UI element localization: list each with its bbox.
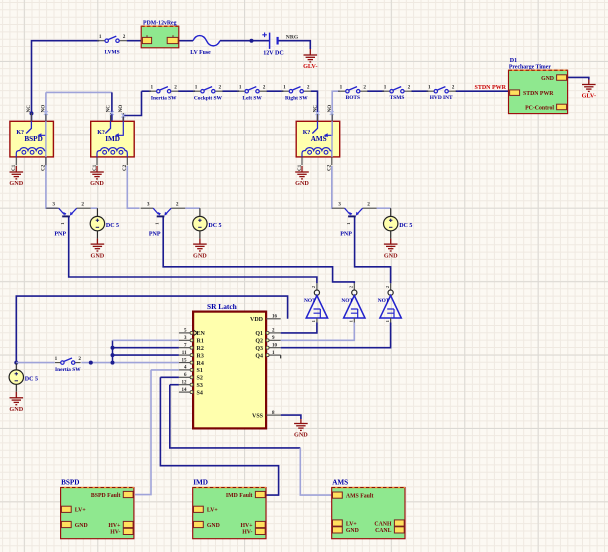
svg-text:GND: GND	[541, 76, 554, 82]
wire	[280, 355, 282, 358]
svg-text:GLV-: GLV-	[582, 93, 596, 100]
svg-text:K?: K?	[16, 130, 24, 136]
wire	[69, 216, 317, 283]
svg-text:12: 12	[182, 381, 188, 386]
wire	[355, 255, 391, 283]
switch HVD INT	[426, 84, 456, 101]
wire	[91, 207, 98, 209]
svg-text:2: 2	[349, 286, 354, 288]
switch Inertia SW	[55, 356, 82, 373]
not-gate U? NOT	[304, 283, 328, 322]
wire	[456, 90, 509, 92]
svg-text:LV+: LV+	[346, 521, 357, 527]
not-gate U? NOT	[341, 283, 365, 322]
no-erc marker	[316, 111, 320, 115]
wire	[46, 91, 112, 93]
svg-text:GND: GND	[75, 523, 88, 529]
source DC 5	[90, 216, 119, 230]
wire	[96, 208, 98, 216]
svg-text:Q3: Q3	[255, 346, 263, 352]
wire	[16, 362, 55, 364]
svg-text:IMD: IMD	[105, 135, 120, 143]
wire	[113, 354, 179, 356]
svg-text:IMD: IMD	[193, 479, 208, 487]
svg-text:LV+: LV+	[75, 508, 86, 514]
svg-text:2: 2	[219, 84, 222, 90]
no-erc marker	[44, 111, 48, 115]
svg-text:GND: GND	[9, 406, 23, 413]
wire	[46, 92, 58, 208]
switch TSMS	[382, 84, 412, 101]
wire	[330, 166, 333, 208]
ground GLV-	[304, 49, 318, 62]
svg-text:LVMS: LVMS	[105, 50, 120, 56]
svg-text:GND: GND	[295, 180, 309, 187]
fuse LV Fuse	[193, 36, 220, 46]
svg-text:1: 1	[349, 320, 354, 322]
svg-text:2: 2	[78, 356, 81, 362]
svg-text:C2: C2	[328, 164, 333, 171]
transistor Q? PNP	[332, 202, 377, 238]
junction	[250, 39, 254, 43]
svg-text:S1: S1	[197, 368, 203, 374]
svg-text:S4: S4	[197, 390, 203, 396]
ground GND	[91, 239, 105, 251]
wire	[142, 90, 151, 92]
wire	[281, 415, 301, 419]
svg-text:GND: GND	[207, 523, 220, 529]
svg-text:1: 1	[385, 320, 390, 322]
svg-text:1: 1	[311, 320, 316, 322]
svg-text:LV+: LV+	[207, 508, 218, 514]
no-erc marker	[121, 114, 125, 118]
wire	[170, 384, 179, 386]
svg-text:1: 1	[239, 84, 242, 90]
svg-text:R3: R3	[197, 353, 204, 359]
svg-text:C1: C1	[93, 164, 98, 171]
svg-text:DC 5: DC 5	[399, 223, 412, 229]
wire	[354, 216, 356, 255]
svg-text:1: 1	[346, 222, 351, 224]
svg-text:2: 2	[311, 286, 316, 288]
svg-text:Inertia SW: Inertia SW	[151, 96, 177, 102]
svg-text:2: 2	[81, 202, 84, 208]
svg-text:NO: NO	[119, 105, 124, 113]
svg-text:BSPD: BSPD	[61, 479, 79, 487]
svg-text:SR Latch: SR Latch	[207, 302, 237, 311]
no-erc marker	[110, 111, 114, 115]
wire	[96, 165, 98, 168]
wire	[127, 40, 142, 42]
transistor Q? PNP	[141, 202, 186, 238]
svg-text:GND: GND	[91, 252, 105, 259]
ground GND	[90, 166, 104, 179]
wire	[185, 207, 200, 209]
svg-text:AMS Fault: AMS Fault	[346, 493, 374, 499]
svg-text:12V DC: 12V DC	[263, 51, 283, 57]
wire	[300, 448, 331, 495]
svg-text:DC 5: DC 5	[106, 223, 119, 229]
wire	[160, 376, 179, 378]
svg-text:GLV-: GLV-	[303, 63, 317, 70]
wire	[331, 166, 333, 208]
wire	[81, 362, 112, 364]
wire	[127, 166, 139, 208]
switch LVMS	[97, 34, 127, 56]
wire	[15, 384, 17, 392]
wire	[163, 216, 354, 283]
wire	[281, 323, 317, 333]
wire	[278, 41, 311, 49]
svg-text:1: 1	[384, 84, 387, 90]
svg-text:HV-: HV-	[242, 530, 252, 536]
wire	[15, 165, 17, 168]
svg-text:3: 3	[338, 202, 341, 208]
svg-text:2: 2	[363, 84, 366, 90]
svg-text:2: 2	[263, 84, 266, 90]
svg-text:DC 5: DC 5	[208, 223, 221, 229]
wire	[267, 90, 284, 92]
wire	[281, 323, 355, 341]
svg-text:HV-: HV-	[110, 530, 120, 536]
wire	[112, 340, 114, 362]
junction	[14, 361, 18, 365]
svg-text:GND: GND	[384, 252, 398, 259]
svg-text:BOTS: BOTS	[346, 95, 360, 101]
svg-text:2: 2	[408, 84, 411, 90]
ground GND	[10, 392, 24, 405]
svg-text:S2: S2	[197, 376, 203, 382]
wire	[16, 296, 287, 363]
svg-text:HV+: HV+	[108, 523, 120, 529]
module BSPD	[61, 479, 134, 539]
timer D1 Precharge Timer	[509, 58, 568, 114]
wire	[311, 91, 318, 121]
svg-text:STDN PWR: STDN PWR	[523, 91, 554, 97]
junction	[111, 353, 115, 357]
svg-text:NOT: NOT	[304, 298, 316, 304]
svg-text:1: 1	[283, 84, 286, 90]
svg-text:STDN PWR: STDN PWR	[475, 85, 507, 91]
svg-text:CANH: CANH	[374, 521, 392, 527]
source DC 5	[9, 370, 38, 384]
svg-text:2: 2	[123, 34, 126, 40]
wire	[331, 121, 333, 157]
ground GND	[10, 166, 24, 179]
svg-text:PNP: PNP	[54, 232, 66, 238]
svg-text:Q1: Q1	[255, 331, 263, 337]
svg-text:PNP: PNP	[340, 232, 352, 238]
svg-text:IMD Fault: IMD Fault	[226, 493, 253, 499]
wire	[411, 90, 428, 92]
ground GND	[294, 419, 308, 430]
switch Left SW	[237, 84, 267, 101]
wire	[113, 362, 179, 364]
ground GLV-	[582, 80, 596, 92]
switch Cockpit SW	[193, 84, 223, 101]
svg-text:NRG: NRG	[286, 35, 299, 41]
svg-text:2: 2	[307, 84, 310, 90]
svg-text:R1: R1	[197, 339, 204, 345]
wire	[113, 339, 179, 341]
junction	[111, 361, 115, 365]
svg-text:1: 1	[340, 84, 343, 90]
transistor Q? PNP	[46, 202, 90, 238]
wire	[220, 40, 269, 42]
wire	[367, 90, 384, 92]
svg-text:EN: EN	[197, 331, 206, 337]
svg-text:BSPD Fault: BSPD Fault	[91, 493, 121, 499]
wire	[160, 377, 278, 495]
wire	[113, 347, 179, 349]
svg-text:C1: C1	[12, 164, 17, 171]
svg-text:10: 10	[272, 344, 278, 349]
svg-text:Q4: Q4	[255, 353, 263, 359]
wire	[568, 77, 589, 79]
wire	[151, 369, 179, 371]
switch Inertia SW	[149, 84, 179, 101]
svg-text:NC: NC	[27, 105, 32, 113]
svg-text:HVD INT: HVD INT	[430, 95, 453, 101]
svg-text:GND: GND	[346, 528, 359, 534]
wire	[15, 363, 17, 370]
svg-text:Q2: Q2	[255, 339, 263, 345]
svg-text:AMS: AMS	[332, 479, 348, 487]
svg-text:2: 2	[174, 84, 177, 90]
wire	[170, 385, 300, 448]
svg-text:Cockpit SW: Cockpit SW	[194, 96, 223, 102]
svg-text:GND: GND	[294, 432, 308, 439]
svg-text:1: 1	[99, 34, 102, 40]
svg-text:HV+: HV+	[241, 523, 253, 529]
svg-text:1: 1	[195, 84, 198, 90]
wire	[123, 91, 141, 121]
wire	[199, 231, 201, 239]
relay K? AMS	[296, 105, 340, 171]
svg-text:AMS: AMS	[311, 135, 327, 143]
svg-text:PC-Control: PC-Control	[525, 105, 554, 111]
svg-text:VSS: VSS	[252, 413, 264, 419]
svg-text:R4: R4	[197, 361, 204, 367]
ground GND	[295, 166, 309, 179]
svg-text:2: 2	[452, 84, 455, 90]
module IMD	[193, 479, 266, 539]
wire	[32, 41, 100, 114]
svg-text:PDM-12vReg: PDM-12vReg	[143, 20, 177, 26]
switch Right SW	[282, 84, 312, 101]
svg-text:16: 16	[272, 315, 278, 320]
svg-text:GND: GND	[90, 180, 104, 187]
wire	[301, 165, 303, 168]
wire	[377, 207, 391, 209]
wire	[178, 90, 195, 92]
switch BOTS	[338, 84, 368, 101]
svg-text:2: 2	[367, 202, 370, 208]
svg-text:1: 1	[151, 84, 154, 90]
wire	[390, 231, 392, 239]
svg-text:1: 1	[428, 84, 431, 90]
wire	[45, 121, 47, 157]
ground GND	[193, 239, 207, 251]
junction	[30, 111, 34, 115]
svg-text:Left SW: Left SW	[242, 96, 262, 102]
wire	[179, 40, 193, 42]
wire	[332, 91, 340, 121]
svg-text:1: 1	[155, 222, 160, 224]
svg-text:3: 3	[52, 202, 55, 208]
module PDM-12vReg	[141, 20, 179, 47]
svg-text:Right SW: Right SW	[285, 96, 308, 102]
junction	[111, 346, 115, 350]
wire	[281, 323, 391, 348]
no-erc marker	[330, 111, 334, 115]
svg-text:GND: GND	[193, 252, 207, 259]
svg-text:3: 3	[147, 202, 150, 208]
svg-text:C2: C2	[42, 164, 47, 171]
ic U? SR Latch	[179, 302, 281, 429]
battery 12V DC	[262, 33, 283, 57]
wire	[390, 208, 392, 216]
svg-text:PNP: PNP	[149, 232, 161, 238]
svg-text:GND: GND	[9, 180, 23, 187]
svg-text:K?: K?	[303, 130, 311, 136]
svg-text:S3: S3	[197, 383, 203, 389]
wire	[199, 208, 201, 216]
source DC 5	[193, 216, 222, 230]
not-gate U? NOT	[378, 283, 402, 322]
svg-text:K?: K?	[97, 130, 105, 136]
wire	[135, 370, 151, 495]
module AMS	[332, 479, 405, 539]
svg-text:11: 11	[182, 351, 187, 356]
svg-text:C2: C2	[123, 164, 128, 171]
svg-text:1: 1	[55, 356, 58, 362]
svg-text:CANL: CANL	[375, 528, 392, 534]
svg-text:NOT: NOT	[341, 298, 353, 304]
svg-text:VDD: VDD	[250, 317, 264, 323]
svg-text:2: 2	[176, 202, 179, 208]
source DC 5	[384, 216, 413, 230]
relay K? BSPD	[10, 105, 54, 171]
svg-text:1: 1	[60, 222, 65, 224]
svg-text:C1: C1	[298, 164, 303, 171]
junction	[89, 361, 93, 365]
ground GND	[384, 239, 398, 251]
wire	[111, 92, 113, 121]
svg-text:NOT: NOT	[378, 298, 390, 304]
svg-text:Inertia SW: Inertia SW	[55, 367, 81, 373]
svg-text:15: 15	[182, 358, 188, 363]
svg-text:14: 14	[182, 388, 188, 393]
svg-text:LV Fuse: LV Fuse	[190, 50, 211, 56]
relay K? IMD	[91, 105, 135, 171]
svg-text:D1: D1	[510, 58, 517, 64]
svg-text:2: 2	[385, 286, 390, 288]
svg-text:R2: R2	[197, 346, 204, 352]
svg-text:DC 5: DC 5	[25, 377, 38, 383]
svg-text:BSPD: BSPD	[24, 135, 42, 143]
svg-text:TSMS: TSMS	[390, 95, 405, 101]
wire	[222, 90, 239, 92]
wire	[31, 113, 33, 121]
wire	[96, 231, 98, 239]
